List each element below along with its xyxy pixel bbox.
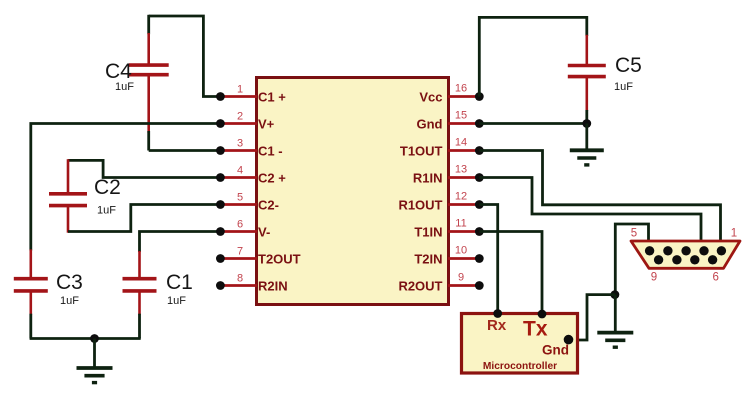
pin 4 stub xyxy=(220,176,257,179)
svg-text:15: 15 xyxy=(455,110,467,122)
capacitor C1 xyxy=(123,277,157,281)
wire: C4 top lead xyxy=(147,15,150,34)
wire: DB9 gnd stem xyxy=(614,295,617,332)
pin 6 stub xyxy=(220,230,257,233)
ground symbol top-right xyxy=(570,148,604,152)
DB9 bottom row pin dot 8 xyxy=(672,255,681,264)
wire: pin 6 V- to C1 xyxy=(140,232,221,253)
svg-text:1uF: 1uF xyxy=(115,81,134,93)
wire: pin 15 Gnd to C5 junction xyxy=(479,122,587,125)
svg-text:C1 +: C1 + xyxy=(258,90,286,105)
svg-text:Gnd: Gnd xyxy=(417,117,443,132)
svg-text:T1OUT: T1OUT xyxy=(400,144,443,159)
pin 15 dot xyxy=(475,119,484,128)
wire: C1 bottom lead xyxy=(138,291,141,315)
pin 9 dot xyxy=(475,281,484,290)
svg-text:8: 8 xyxy=(237,272,243,284)
pin 7 stub xyxy=(220,257,257,260)
pin 16 stub xyxy=(448,95,479,98)
wire: pin 2 V+ to C3 xyxy=(31,124,221,251)
wire: C2 bottom to pin 5 xyxy=(68,205,220,232)
svg-text:9: 9 xyxy=(651,272,657,284)
ground symbol bottom-left xyxy=(77,366,113,370)
junction dot DB9 ground xyxy=(611,290,620,299)
wire: DB9 pin 5 to ground xyxy=(615,224,648,295)
svg-text:2: 2 xyxy=(237,110,243,122)
pin 1 stub xyxy=(220,95,257,98)
wire: pin 16 Vcc to C5 xyxy=(479,17,587,96)
pin 10 dot xyxy=(475,254,484,263)
microcontroller Tx pin dot xyxy=(538,310,547,319)
pin 11 stub xyxy=(448,230,479,233)
DB9 bottom row pin dot 7 xyxy=(690,255,699,264)
svg-text:5: 5 xyxy=(631,228,637,240)
pin 1 dot xyxy=(216,92,225,101)
wire: C5 top lead xyxy=(585,35,588,66)
wire: C2 top lead xyxy=(67,159,70,194)
pin 15 stub xyxy=(448,122,479,125)
svg-text:C3: C3 xyxy=(56,271,83,294)
svg-text:C1 -: C1 - xyxy=(258,144,283,159)
wire: junction to microcontroller Gnd xyxy=(569,295,616,340)
svg-text:1uF: 1uF xyxy=(60,295,79,307)
junction dot ground bus xyxy=(90,334,99,343)
wire: pin 11 T1IN to Tx xyxy=(479,232,542,314)
pin 14 stub xyxy=(448,149,479,152)
DB9 bottom row pin dot 9 xyxy=(654,255,663,264)
svg-text:5: 5 xyxy=(237,191,243,203)
svg-text:1uF: 1uF xyxy=(167,295,186,307)
svg-text:C1: C1 xyxy=(166,271,193,294)
pin 5 stub xyxy=(220,203,257,206)
wire: C3 bottom lead xyxy=(29,291,32,315)
svg-text:1: 1 xyxy=(731,228,737,240)
svg-text:T1IN: T1IN xyxy=(414,225,442,240)
svg-text:1uF: 1uF xyxy=(97,205,116,217)
pin 13 stub xyxy=(448,176,479,179)
svg-text:R2IN: R2IN xyxy=(258,279,288,294)
DB9 top row pin dot 3 xyxy=(681,246,690,255)
pin 13 dot xyxy=(475,173,484,182)
wire: C2 bottom lead xyxy=(67,206,70,233)
wire: pin 13 R1IN to DB9 pin 2 xyxy=(479,178,701,242)
svg-text:13: 13 xyxy=(455,164,467,176)
svg-text:4: 4 xyxy=(237,164,243,176)
pin 14 dot xyxy=(475,146,484,155)
wire: C4 bottom lead xyxy=(147,75,150,133)
capacitor C2 xyxy=(49,192,87,196)
pin 16 dot xyxy=(475,92,484,101)
wire: ground stem xyxy=(93,339,96,368)
wire: pin 12 R1OUT to Rx xyxy=(479,205,497,314)
svg-text:T2IN: T2IN xyxy=(414,252,442,267)
microcontroller Gnd pin dot xyxy=(564,335,574,345)
wire: ground bus C3-C1 xyxy=(30,337,141,340)
microcontroller U2 body xyxy=(462,314,578,374)
svg-text:14: 14 xyxy=(455,137,467,149)
pin 8 stub xyxy=(220,284,257,287)
pin 2 stub xyxy=(220,122,257,125)
DB9 bottom row pin dot 6 xyxy=(708,255,717,264)
DB9 top row pin dot 1 xyxy=(717,246,726,255)
capacitor C5 xyxy=(568,64,606,68)
DB9 top row pin dot 2 xyxy=(699,246,708,255)
svg-text:6: 6 xyxy=(712,272,718,284)
svg-text:C2-: C2- xyxy=(258,198,279,213)
svg-text:11: 11 xyxy=(455,218,466,230)
svg-text:Tx: Tx xyxy=(523,318,548,341)
wire: pin 14 T1OUT to DB9 pin 1 xyxy=(479,151,720,242)
pin 12 dot xyxy=(475,200,484,209)
DB9 top row pin dot 4 xyxy=(663,246,672,255)
svg-text:1uF: 1uF xyxy=(614,81,633,93)
pin 2 dot xyxy=(216,119,225,128)
wire: C1 top lead xyxy=(138,251,141,279)
pin 11 dot xyxy=(475,227,484,236)
pin 6 dot xyxy=(216,227,225,236)
pin 7 dot xyxy=(216,254,225,263)
wire: C4 to pin 3 xyxy=(149,149,221,152)
svg-text:3: 3 xyxy=(237,137,243,149)
svg-text:Vcc: Vcc xyxy=(419,90,442,105)
wire: C5 bottom lead xyxy=(585,77,588,111)
pin 9 stub xyxy=(448,284,479,287)
svg-text:9: 9 xyxy=(458,272,464,284)
pin 3 dot xyxy=(216,146,225,155)
svg-text:R2OUT: R2OUT xyxy=(398,279,442,294)
svg-text:V-: V- xyxy=(258,225,270,240)
junction dot C5/Gnd xyxy=(582,119,591,128)
svg-text:Gnd: Gnd xyxy=(542,343,569,358)
svg-text:R1IN: R1IN xyxy=(413,171,443,186)
wire: pin 4 C2+ xyxy=(68,160,220,177)
svg-text:Rx: Rx xyxy=(487,317,507,334)
svg-text:C2 +: C2 + xyxy=(258,171,286,186)
pin 8 dot xyxy=(216,281,225,290)
microcontroller Rx pin dot xyxy=(493,309,502,318)
svg-text:V+: V+ xyxy=(258,117,275,132)
DB9 top row pin dot 5 xyxy=(645,246,654,255)
svg-text:Microcontroller: Microcontroller xyxy=(483,361,557,372)
pin 3 stub xyxy=(220,149,257,152)
svg-text:7: 7 xyxy=(237,245,243,257)
svg-text:C4: C4 xyxy=(105,60,132,83)
pin 10 stub xyxy=(448,257,479,260)
svg-text:16: 16 xyxy=(455,83,467,95)
pin 5 dot xyxy=(216,200,225,209)
svg-text:R1OUT: R1OUT xyxy=(398,198,442,213)
wire: C3 top lead xyxy=(29,249,32,278)
svg-text:10: 10 xyxy=(455,245,467,257)
svg-text:C5: C5 xyxy=(615,54,642,77)
ground symbol middle-right xyxy=(597,331,633,335)
svg-text:1: 1 xyxy=(237,83,243,95)
connector J1 DB9 body xyxy=(631,241,740,268)
svg-text:12: 12 xyxy=(455,191,467,203)
svg-text:C2: C2 xyxy=(94,176,121,199)
pin 4 dot xyxy=(216,173,225,182)
svg-text:T2OUT: T2OUT xyxy=(258,252,301,267)
capacitor C4 xyxy=(129,63,169,67)
capacitor C3 xyxy=(14,277,48,281)
wire: C4 top to pin 1 xyxy=(149,16,221,97)
svg-text:6: 6 xyxy=(237,218,243,230)
op-amp U1 MAX232 IC body xyxy=(257,78,449,305)
pin 12 stub xyxy=(448,203,479,206)
wire: gnd stem right-top xyxy=(585,124,588,151)
